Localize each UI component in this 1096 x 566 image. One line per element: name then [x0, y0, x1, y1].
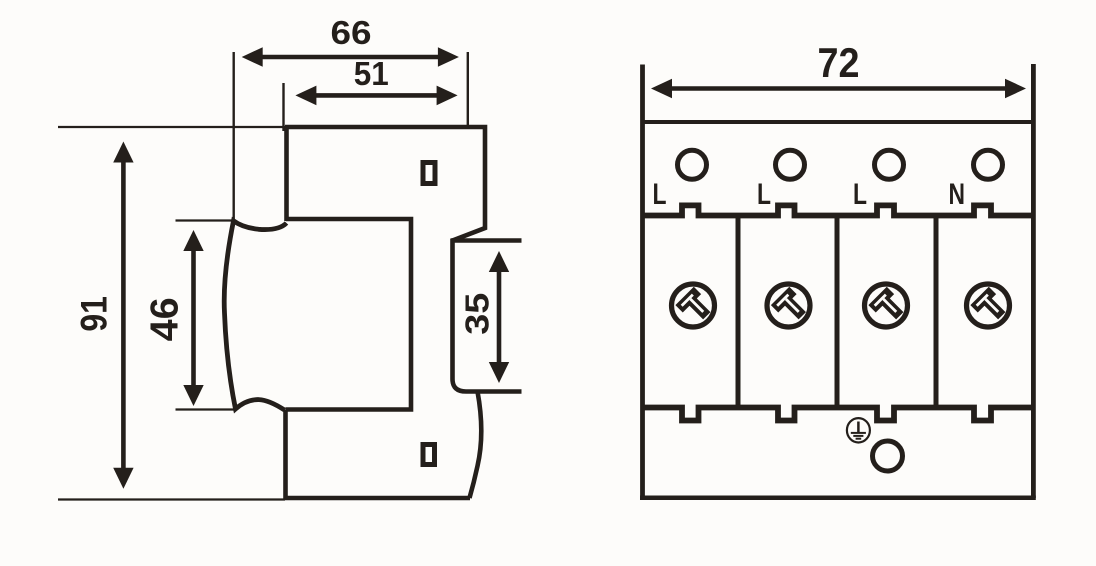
svg-text:35: 35 [458, 293, 495, 335]
upper step line with notches [643, 205, 1034, 215]
side-view body outline [285, 127, 522, 498]
svg-text:72: 72 [818, 39, 860, 86]
dimension 46 arrow line [191, 250, 196, 387]
svg-text:L: L [757, 178, 771, 211]
ground symbol [847, 418, 870, 442]
arrowhead 91 top [113, 142, 133, 163]
svg-text:46: 46 [144, 297, 187, 341]
dimension 51 arrow line [315, 93, 439, 98]
arrowhead 51 right [437, 86, 458, 106]
wire 66 left extension line [232, 52, 234, 221]
arrowhead 66 right [438, 47, 459, 67]
svg-text:N: N [949, 178, 966, 211]
arrowhead 72 left [651, 79, 672, 99]
terminal circle 4 [974, 150, 1003, 179]
dimension 91 arrow line [121, 161, 126, 470]
screw 2 [767, 284, 810, 327]
front-view top edge [643, 120, 1034, 124]
screw 4 [967, 284, 1010, 327]
arrowhead 66 left [242, 47, 263, 67]
module separator 3 [934, 216, 939, 407]
terminal circle 1 [678, 150, 707, 179]
arrowhead 35 top [489, 251, 509, 272]
arrowhead 91 bottom [113, 468, 133, 489]
front-view right border [1031, 64, 1036, 498]
module separator 2 [835, 216, 840, 407]
terminal circle 3 [875, 150, 904, 179]
wire bottom reference extension line (91 bottom) [58, 498, 285, 500]
front-view left border [640, 65, 645, 499]
side-view upper mounting hole [423, 163, 435, 184]
wire 46 bottom extension line [176, 408, 237, 410]
svg-text:66: 66 [331, 14, 372, 51]
ground terminal circle [873, 441, 903, 471]
svg-text:L: L [853, 178, 867, 211]
front-view bottom edge [640, 495, 1036, 500]
wire top reference extension line (91 top) [58, 126, 285, 128]
lower step line with notches [643, 408, 1034, 421]
arrowhead 72 right [1005, 79, 1026, 99]
arrowhead 35 bottom [489, 362, 509, 383]
side-view lower mounting hole [423, 445, 435, 465]
arrowhead 46 top [183, 230, 203, 251]
svg-text:51: 51 [354, 55, 389, 92]
arrowhead 51 left [295, 86, 316, 106]
screw 3 [865, 284, 908, 327]
dimension 35 arrow line [497, 271, 502, 364]
dimension 72 arrow line [671, 86, 1007, 91]
svg-text:91: 91 [73, 296, 114, 332]
terminal circle 2 [776, 150, 805, 179]
module separator 1 [736, 216, 741, 407]
dimension 66 arrow line [261, 55, 440, 60]
wire 51 left extension line [282, 83, 284, 131]
wire 46 top extension line [176, 219, 232, 221]
arrowhead 46 bottom [183, 385, 203, 406]
screw 1 [672, 284, 715, 327]
svg-text:L: L [653, 178, 667, 211]
wire 66/51 right extension line [467, 52, 469, 127]
side-view DIN clip outline [224, 221, 286, 410]
